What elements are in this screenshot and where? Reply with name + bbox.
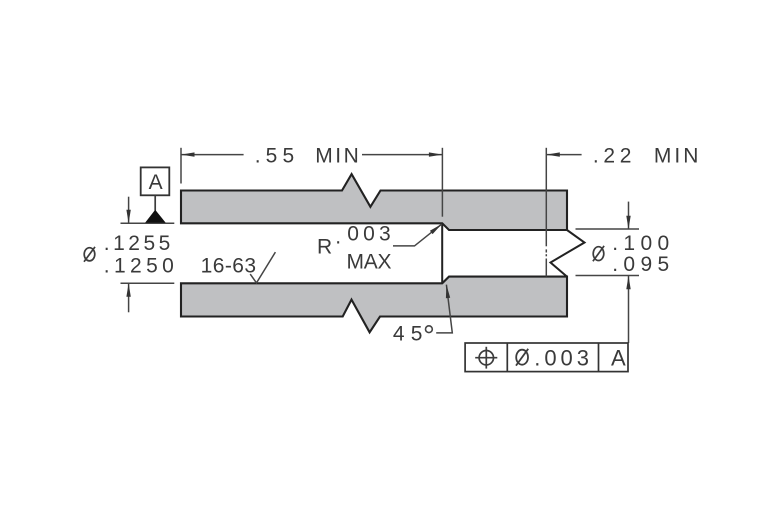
svg-text:MIN: MIN (315, 145, 359, 168)
svg-text:MAX: MAX (347, 250, 392, 273)
svg-text:.22: .22 (593, 145, 632, 168)
svg-text:A: A (149, 171, 163, 194)
svg-text:A: A (611, 346, 626, 371)
svg-text:.1255: .1255 (104, 232, 171, 255)
svg-text:16-63: 16-63 (201, 255, 257, 278)
svg-text:.1250: .1250 (104, 254, 174, 277)
svg-text:R: R (317, 236, 332, 259)
svg-text:MIN: MIN (654, 145, 699, 168)
svg-text:.: . (335, 226, 341, 249)
svg-text:003: 003 (347, 222, 391, 245)
